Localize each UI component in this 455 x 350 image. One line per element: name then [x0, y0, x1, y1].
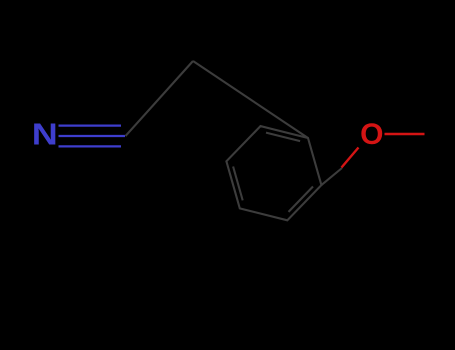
svg-text:O: O	[360, 118, 383, 151]
benzene ring	[226, 126, 321, 220]
C-O bond gray half	[321, 168, 342, 185]
chain bond C1-C2	[126, 61, 194, 136]
svg-text:N: N	[32, 117, 58, 152]
O-methyl bond	[385, 133, 425, 135]
chain bond C2-ring	[193, 61, 308, 138]
nitrile triple bond	[59, 126, 126, 147]
C-O bond red half	[342, 148, 359, 168]
